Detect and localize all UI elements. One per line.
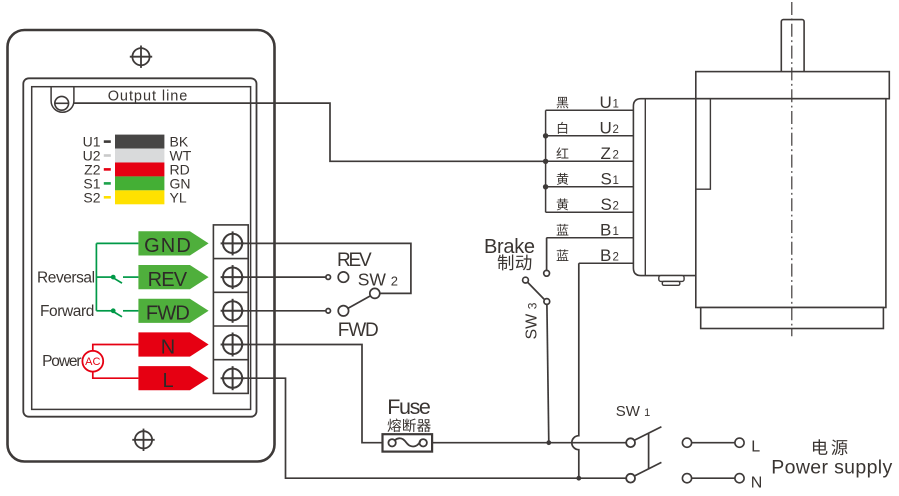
- svg-text:B: B: [600, 220, 611, 239]
- svg-text:Output line: Output line: [108, 88, 189, 104]
- svg-text:Z: Z: [601, 144, 611, 163]
- svg-text:2: 2: [613, 150, 619, 162]
- svg-text:Fuse: Fuse: [387, 395, 430, 419]
- svg-text:U: U: [600, 93, 612, 112]
- svg-text:SW 3: SW 3: [524, 302, 541, 339]
- svg-text:FWD: FWD: [338, 320, 378, 341]
- svg-text:FWD: FWD: [146, 303, 189, 325]
- svg-text:2: 2: [613, 124, 619, 136]
- svg-text:N: N: [751, 475, 763, 492]
- svg-text:S2: S2: [83, 189, 100, 205]
- svg-text:U: U: [600, 118, 612, 137]
- svg-text:N: N: [161, 336, 175, 358]
- svg-text:S: S: [601, 169, 612, 188]
- svg-text:Power supply: Power supply: [771, 457, 892, 479]
- svg-text:1: 1: [613, 226, 619, 238]
- svg-text:1: 1: [613, 175, 619, 187]
- svg-text:REV: REV: [337, 250, 372, 271]
- svg-text:YL: YL: [170, 189, 187, 205]
- svg-text:L: L: [751, 438, 760, 455]
- svg-text:Power: Power: [42, 353, 81, 370]
- svg-text:B: B: [600, 246, 611, 265]
- svg-text:REV: REV: [148, 269, 188, 291]
- svg-text:Reversal: Reversal: [37, 270, 95, 287]
- svg-text:S: S: [601, 195, 612, 214]
- svg-text:Forward: Forward: [40, 303, 94, 320]
- svg-text:AC: AC: [85, 356, 100, 368]
- svg-text:2: 2: [613, 201, 619, 213]
- svg-text:L: L: [162, 370, 173, 392]
- svg-text:2: 2: [613, 252, 619, 264]
- svg-text:GND: GND: [144, 235, 192, 257]
- svg-text:1: 1: [613, 99, 619, 111]
